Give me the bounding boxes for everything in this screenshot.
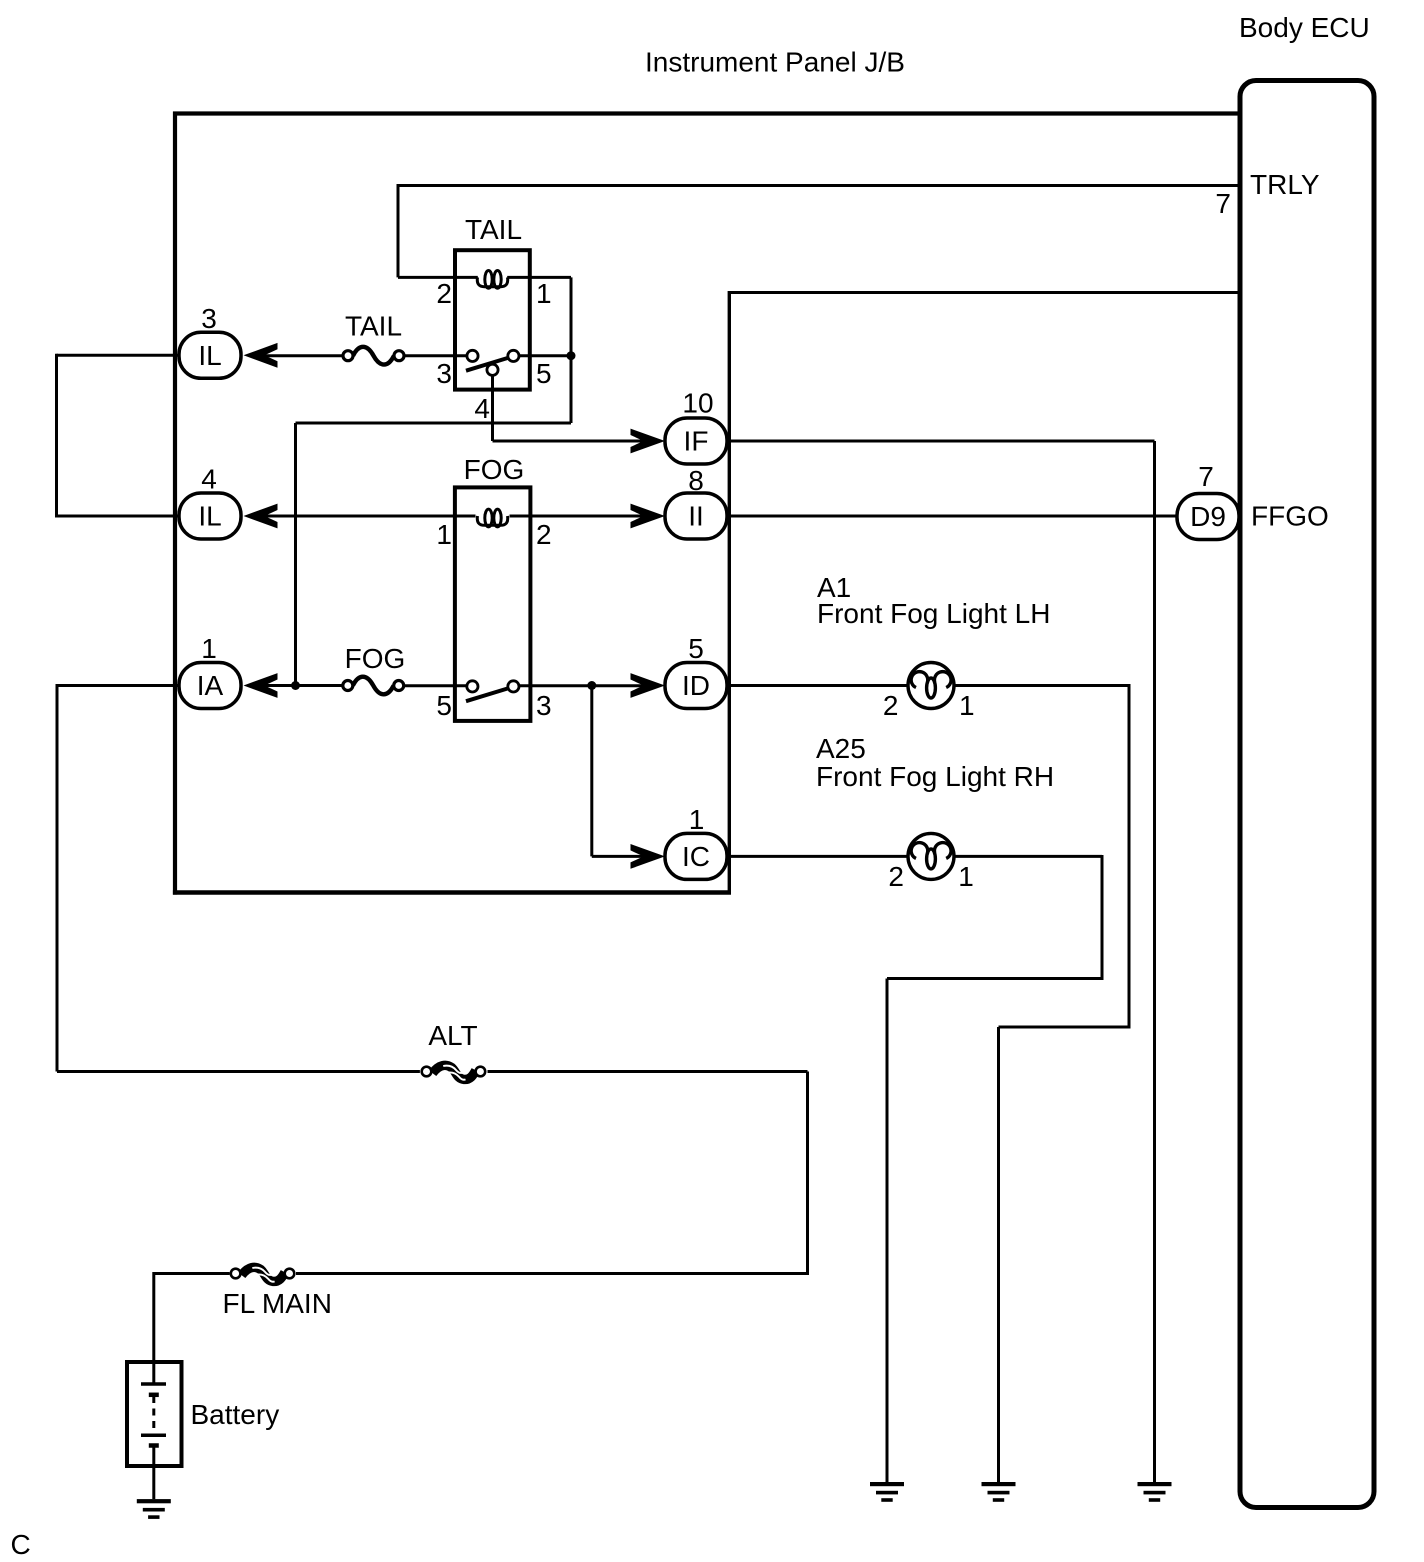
connector IL(3): [179, 332, 241, 378]
svg-text:C: C: [11, 1529, 31, 1560]
wire TAIL pin 1 to junction: [529, 276, 571, 279]
wire IL(4) to FOG relay pin 1: [264, 515, 458, 518]
svg-text:2: 2: [888, 861, 904, 892]
svg-text:1: 1: [201, 633, 217, 664]
ground battery: [137, 1499, 171, 1519]
wire battery to FL MAIN: [154, 1272, 230, 1275]
relay FOG box: [455, 487, 531, 721]
wire down to FL MAIN row: [806, 1072, 809, 1276]
svg-text:TAIL: TAIL: [465, 214, 522, 245]
relay TAIL box: [455, 250, 530, 389]
wire fog LH to ground: [997, 1027, 1000, 1482]
arrow into IL(4): [244, 504, 278, 529]
svg-text:FL MAIN: FL MAIN: [223, 1288, 332, 1319]
wire TAIL coil lead left: [456, 276, 478, 279]
svg-text:TRLY: TRLY: [1250, 169, 1320, 200]
wire IF to ground drop: [727, 440, 1155, 443]
wire ID node down to IC: [590, 686, 593, 857]
junction ID node: [587, 681, 596, 690]
lamp A25 front fog light RH: [908, 833, 954, 879]
svg-text:IC: IC: [682, 841, 710, 872]
svg-text:1: 1: [959, 690, 975, 721]
svg-text:3: 3: [201, 303, 217, 334]
svg-text:4: 4: [474, 393, 490, 424]
wire left side down to ALT: [56, 684, 59, 1072]
svg-text:IA: IA: [197, 670, 224, 701]
lamp A1 front fog light LH: [908, 663, 954, 709]
svg-text:2: 2: [436, 278, 452, 309]
wire J/B top rail to Body ECU: [173, 111, 1240, 115]
coil TAIL relay: [477, 271, 507, 289]
arrow into IL(3): [244, 343, 278, 368]
wire fog LH down: [1128, 684, 1131, 1027]
fuse FOG: [353, 677, 394, 695]
svg-text:1: 1: [536, 278, 552, 309]
wire TAIL coil lead right: [507, 276, 529, 279]
svg-text:2: 2: [536, 519, 552, 550]
wire fog RH down: [1101, 855, 1104, 979]
wire fog RH pin 1 right: [954, 855, 1102, 858]
junction TAIL pin1/pin5 node: [567, 351, 576, 360]
svg-text:1: 1: [689, 804, 705, 835]
svg-text:FFGO: FFGO: [1251, 501, 1329, 532]
wire node down to IA row: [294, 423, 297, 686]
connector IA: [179, 663, 241, 709]
wire bracket bottom to IL(4): [57, 515, 180, 518]
svg-text:FOG: FOG: [345, 643, 406, 674]
svg-text:10: 10: [682, 388, 713, 419]
wire to IC arrow: [592, 855, 645, 858]
wire FOG relay pin 3 to ID: [519, 684, 645, 687]
wire bracket top to IL(3): [57, 354, 180, 357]
wire down to ground right: [1153, 441, 1156, 1482]
wire II to D9: [727, 515, 1178, 518]
wire J/B bottom edge: [173, 890, 731, 894]
svg-text:Battery: Battery: [191, 1399, 280, 1430]
svg-text:II: II: [688, 501, 704, 532]
ground fog RH: [870, 1482, 904, 1502]
wire IL(3) to TAIL fuse: [264, 354, 343, 357]
wire FOG coil lead right: [510, 515, 530, 518]
wire down to battery: [152, 1272, 155, 1363]
Body ECU box: [1240, 81, 1374, 1508]
svg-text:Front Fog Light RH: Front Fog Light RH: [816, 761, 1054, 792]
switch FOG relay lever: [466, 687, 513, 702]
svg-text:A25: A25: [816, 733, 866, 764]
svg-text:Front Fog Light LH: Front Fog Light LH: [817, 598, 1050, 629]
wire IC to fog light RH: [727, 855, 908, 858]
svg-text:5: 5: [436, 690, 452, 721]
arrow into IC: [631, 844, 666, 869]
wire FOG coil lead left: [457, 515, 476, 518]
wire IA to left: [57, 684, 179, 687]
junction IA node: [291, 681, 300, 690]
wire IA to FOG fuse: [264, 684, 343, 687]
svg-text:7: 7: [1215, 188, 1231, 219]
connector D9: [1177, 494, 1239, 540]
wire fog LH pin 1 right: [954, 684, 1129, 687]
svg-text:5: 5: [688, 633, 704, 664]
svg-text:ALT: ALT: [428, 1020, 477, 1051]
wire ID to fog light LH: [727, 684, 908, 687]
svg-text:ID: ID: [682, 670, 710, 701]
wire TAIL pin 4 to IF: [493, 440, 646, 443]
wire TRLY from TAIL relay coil to Body ECU pin 7: [398, 184, 1240, 187]
wire J/B right edge: [728, 291, 731, 892]
svg-text:1: 1: [958, 861, 974, 892]
svg-text:3: 3: [436, 358, 452, 389]
wire fog LH across: [999, 1026, 1131, 1029]
arrow into IF: [631, 429, 666, 454]
wire FL MAIN to right corner: [296, 1272, 808, 1275]
arrow into II: [631, 504, 666, 529]
switch TAIL relay lever: [466, 356, 513, 371]
ground fog LH: [982, 1482, 1016, 1502]
ground IF line: [1138, 1482, 1172, 1502]
svg-text:FOG: FOG: [464, 454, 525, 485]
svg-text:Body ECU: Body ECU: [1239, 12, 1370, 43]
wire junction down: [570, 277, 573, 423]
wire to TAIL relay pin 2: [398, 276, 456, 279]
svg-text:4: 4: [201, 464, 217, 495]
wire TAIL pin 4 down: [491, 375, 494, 441]
svg-text:D9: D9: [1190, 501, 1226, 532]
wire ALT to right corner: [488, 1070, 808, 1073]
connector IF: [665, 418, 727, 464]
svg-text:Instrument Panel J/B: Instrument Panel J/B: [645, 47, 905, 78]
svg-text:IF: IF: [684, 426, 709, 457]
connector ID: [665, 663, 727, 709]
wire fog RH to ground: [886, 979, 889, 1483]
svg-text:TAIL: TAIL: [345, 311, 402, 342]
svg-text:5: 5: [536, 358, 552, 389]
svg-text:2: 2: [883, 690, 899, 721]
wire to ALT fusible link: [57, 1070, 420, 1073]
wire down to TAIL relay coil: [397, 184, 400, 277]
fusible link FL MAIN: [231, 1267, 295, 1281]
svg-text:1: 1: [436, 519, 452, 550]
wire FOG fuse to relay pin 5: [404, 684, 467, 687]
wire J/B left edge: [173, 112, 177, 895]
connector IC: [665, 833, 727, 879]
svg-text:IL: IL: [198, 501, 221, 532]
svg-text:IL: IL: [198, 340, 221, 371]
wire fog RH across: [887, 977, 1104, 980]
wire TAIL fuse to relay pin 3: [405, 354, 467, 357]
connector IL(4): [179, 493, 241, 539]
arrow into IA: [244, 673, 278, 698]
fusible link ALT: [422, 1065, 486, 1079]
connector II: [665, 493, 727, 539]
fuse TAIL: [353, 347, 394, 365]
wire J/B upper-right rail to Body ECU: [729, 291, 1240, 294]
battery: [127, 1362, 182, 1499]
svg-text:3: 3: [536, 690, 552, 721]
wire FOG pin 2 to II: [529, 515, 645, 518]
svg-text:7: 7: [1198, 461, 1214, 492]
wire TAIL node across: [296, 422, 572, 425]
wire TAIL relay pin 5 to junction: [517, 354, 571, 357]
arrow into ID: [631, 673, 666, 698]
wire bracket left side: [55, 354, 58, 518]
coil FOG relay: [477, 509, 507, 527]
